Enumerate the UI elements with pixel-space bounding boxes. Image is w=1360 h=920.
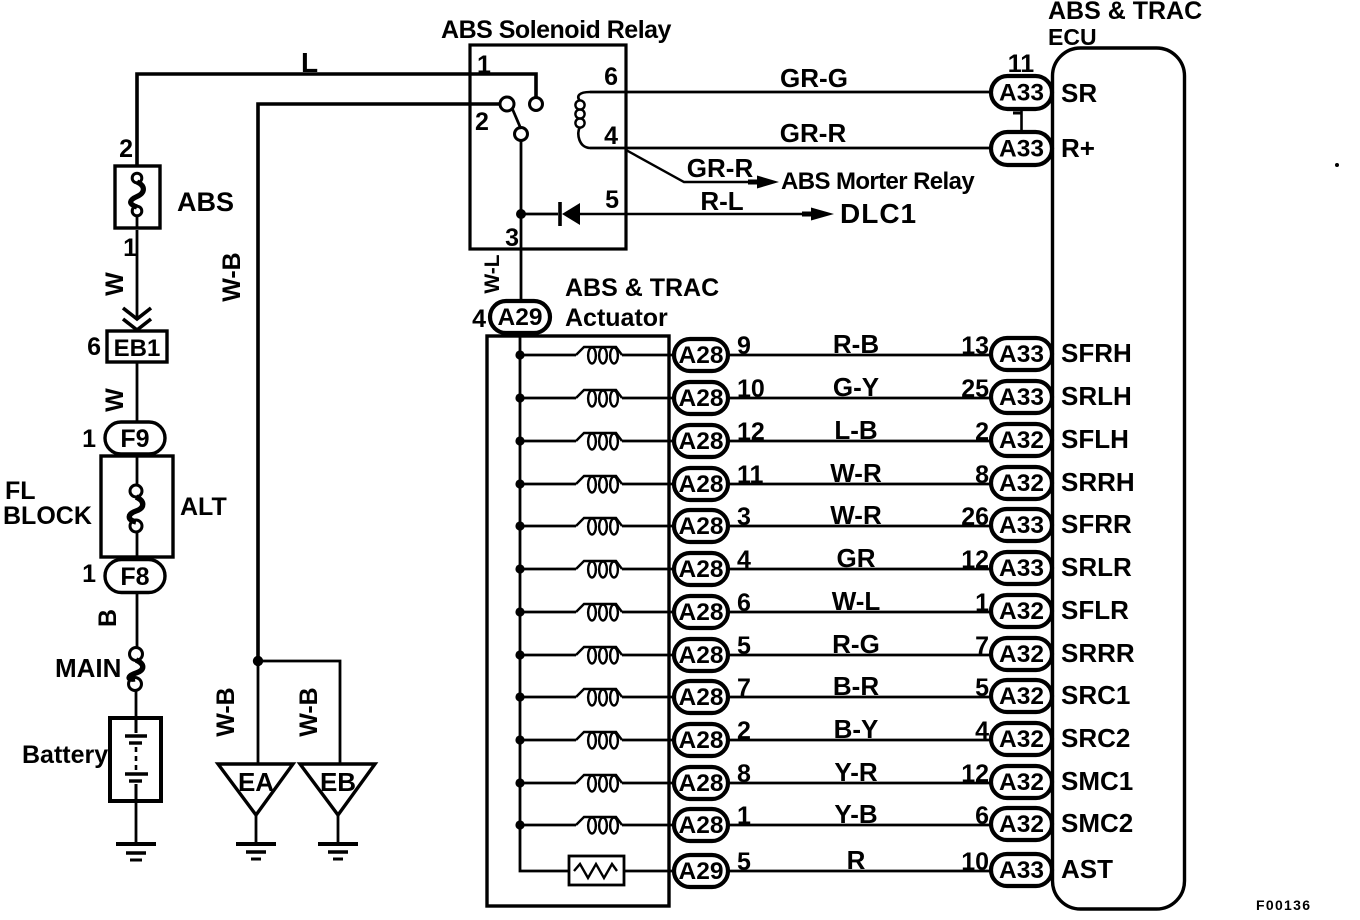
connector A32 row 11: [991, 766, 1052, 798]
svg-text:ABS: ABS: [177, 187, 234, 217]
svg-text:SFRR: SFRR: [1061, 509, 1132, 539]
wire: [520, 696, 576, 699]
svg-text:2: 2: [475, 108, 489, 136]
wire W-B (feed to relay pin 2 and down to grounds): [258, 104, 500, 661]
svg-text:12: 12: [961, 760, 989, 788]
svg-text:A29: A29: [679, 858, 724, 885]
svg-text:Actuator: Actuator: [565, 304, 668, 332]
connector A33 (SR): [991, 76, 1052, 109]
svg-text:SRC2: SRC2: [1061, 723, 1130, 753]
stray mark: [1335, 163, 1339, 167]
svg-text:13: 13: [961, 332, 989, 360]
svg-text:A28: A28: [679, 556, 724, 583]
svg-text:A28: A28: [679, 684, 724, 711]
svg-text:A32: A32: [999, 769, 1044, 796]
ground (battery): [116, 844, 156, 860]
junction node (pin 3 / pin 5): [516, 209, 526, 219]
connector A28 row 6: [674, 553, 728, 585]
connector A28 row 1: [674, 339, 728, 371]
svg-text:Y-B: Y-B: [834, 799, 877, 829]
svg-text:A32: A32: [999, 427, 1044, 454]
wire B-R row 9: [728, 696, 991, 699]
solenoid coil row 5: [576, 518, 622, 535]
connector A28 row 9: [674, 681, 728, 713]
svg-text:A33: A33: [999, 857, 1044, 884]
svg-text:A28: A28: [679, 770, 724, 797]
junction node row 1: [515, 350, 524, 359]
connector A28 row 11: [674, 767, 728, 799]
splice chevrons: [123, 308, 151, 330]
svg-text:G-Y: G-Y: [833, 372, 879, 402]
connector A28 row 8: [674, 639, 728, 671]
solenoid coil row 3: [576, 433, 622, 450]
svg-text:W-L: W-L: [481, 254, 504, 293]
svg-text:A33: A33: [999, 136, 1044, 163]
connector A33 row 1: [991, 338, 1052, 370]
connector A28 row 12: [674, 809, 728, 841]
svg-text:A28: A28: [679, 599, 724, 626]
connector A29 (actuator top): [490, 301, 550, 333]
solenoid coil row 6: [576, 561, 622, 578]
junction node row 7: [515, 607, 524, 616]
svg-text:W-R: W-R: [830, 458, 882, 488]
svg-text:A28: A28: [679, 342, 724, 369]
svg-text:6: 6: [604, 63, 618, 91]
svg-text:A28: A28: [679, 513, 724, 540]
svg-text:L-B: L-B: [834, 415, 877, 445]
connector A32 row 12: [991, 808, 1052, 840]
svg-text:EB1: EB1: [114, 335, 161, 362]
junction node row 11: [515, 778, 524, 787]
wire GR-G (pin 6 to ECU SR): [590, 91, 991, 94]
svg-text:3: 3: [505, 224, 519, 252]
wire: [135, 801, 138, 843]
connector A28 row 2: [674, 382, 728, 414]
wire: [622, 654, 674, 657]
svg-text:4: 4: [604, 122, 618, 150]
svg-text:A28: A28: [679, 727, 724, 754]
connector A32 row 8: [991, 638, 1052, 670]
solenoid coil row 4: [576, 476, 622, 493]
junction node row 12: [515, 820, 524, 829]
svg-text:2: 2: [975, 418, 989, 446]
svg-text:GR-G: GR-G: [780, 63, 848, 93]
wire: [520, 483, 576, 486]
svg-text:SMC2: SMC2: [1061, 808, 1133, 838]
svg-text:F9: F9: [120, 425, 149, 453]
solenoid coil row 12: [576, 817, 622, 834]
relay box ABS Solenoid Relay: [470, 45, 626, 249]
wire: [622, 568, 674, 571]
svg-text:ABS & TRAC: ABS & TRAC: [1048, 0, 1202, 25]
svg-text:A32: A32: [999, 726, 1044, 753]
svg-text:SRLH: SRLH: [1061, 381, 1132, 411]
wire G-Y row 2: [728, 397, 991, 400]
connector A32 row 9: [991, 680, 1052, 712]
svg-text:A33: A33: [999, 80, 1044, 107]
svg-text:25: 25: [961, 375, 989, 403]
svg-text:4: 4: [975, 717, 989, 745]
svg-text:6: 6: [87, 333, 101, 361]
resistor (actuator): [569, 856, 624, 885]
junction node row 8: [515, 650, 524, 659]
wire: [520, 782, 576, 785]
solenoid coil row 11: [576, 775, 622, 792]
wire: [520, 440, 576, 443]
wire: [136, 230, 139, 317]
connector A32 row 4: [991, 467, 1052, 499]
wire: [622, 354, 674, 357]
wire: [622, 782, 674, 785]
fuse ABS: [115, 166, 234, 228]
wire: [622, 696, 674, 699]
connector A33 row 5: [991, 509, 1052, 541]
svg-text:2: 2: [119, 135, 133, 163]
svg-text:W-B: W-B: [212, 687, 240, 736]
svg-text:A28: A28: [679, 471, 724, 498]
svg-text:SRLR: SRLR: [1061, 552, 1132, 582]
svg-text:W: W: [101, 388, 129, 412]
connector A32 row 10: [991, 723, 1052, 755]
wire to EA: [257, 661, 260, 764]
battery: [22, 718, 161, 801]
wire: [622, 739, 674, 742]
svg-text:5: 5: [975, 674, 989, 702]
junction node row 5: [515, 521, 524, 530]
wire R row 13: [728, 870, 991, 873]
svg-text:Battery: Battery: [22, 741, 108, 769]
junction connector EB1: [107, 331, 167, 362]
svg-text:AST: AST: [1061, 854, 1113, 884]
wire W-L row 7: [728, 611, 991, 614]
connector A33 row 13: [991, 854, 1052, 886]
connector A29 (resistor row): [674, 855, 728, 887]
wire Y-B row 12: [728, 824, 991, 827]
wire L (top feed to relay pin 1): [137, 74, 536, 166]
svg-text:R-B: R-B: [833, 329, 879, 359]
wire branch to EB: [258, 661, 340, 764]
svg-text:8: 8: [975, 461, 989, 489]
connector A32 row 7: [991, 595, 1052, 627]
svg-text:A32: A32: [999, 683, 1044, 710]
wire: [622, 440, 674, 443]
svg-text:A32: A32: [999, 598, 1044, 625]
svg-text:A32: A32: [999, 811, 1044, 838]
svg-text:26: 26: [961, 503, 989, 531]
svg-text:11: 11: [1008, 50, 1035, 78]
svg-text:A33: A33: [999, 384, 1044, 411]
diode: [521, 202, 580, 226]
connector link wire: [1013, 109, 1022, 132]
svg-text:1: 1: [975, 589, 989, 617]
connector F9: [105, 422, 165, 454]
wire B-Y row 10: [728, 739, 991, 742]
svg-text:GR-R: GR-R: [780, 118, 847, 148]
svg-text:SMC1: SMC1: [1061, 766, 1133, 796]
svg-text:SFLR: SFLR: [1061, 595, 1129, 625]
connector A33 row 6: [991, 552, 1052, 584]
connector A28 row 5: [674, 510, 728, 542]
svg-text:FL: FL: [5, 477, 36, 505]
wire: [520, 611, 576, 614]
svg-text:W-L: W-L: [832, 586, 881, 616]
wire R-B row 1: [728, 354, 991, 357]
svg-text:ECU: ECU: [1048, 24, 1097, 50]
svg-text:Y-R: Y-R: [834, 757, 878, 787]
svg-text:F8: F8: [120, 563, 149, 591]
svg-text:SRRR: SRRR: [1061, 638, 1135, 668]
svg-text:R-G: R-G: [832, 629, 880, 659]
wire stub to ABS Morter Relay: [626, 150, 779, 189]
svg-text:SRC1: SRC1: [1061, 680, 1130, 710]
svg-text:B-Y: B-Y: [834, 714, 879, 744]
svg-text:1: 1: [477, 51, 491, 79]
wire: [520, 654, 576, 657]
svg-text:12: 12: [961, 546, 989, 574]
wire GR row 6: [728, 568, 991, 571]
wire W-R row 5: [728, 525, 991, 528]
svg-text:ABS Morter Relay: ABS Morter Relay: [781, 168, 975, 195]
bus wire inside actuator: [520, 333, 569, 871]
fusible link MAIN: [55, 648, 143, 691]
ECU box ABS & TRAC ECU: [1053, 48, 1185, 909]
connector A28 row 4: [674, 468, 728, 500]
ground point EA: [218, 764, 293, 859]
svg-text:A32: A32: [999, 641, 1044, 668]
junction node: [253, 656, 263, 666]
solenoid coil row 9: [576, 689, 622, 706]
svg-text:10: 10: [961, 848, 989, 876]
svg-text:1: 1: [82, 425, 96, 453]
junction node row 10: [515, 735, 524, 744]
svg-text:1: 1: [123, 234, 137, 262]
relay coil: [575, 92, 590, 148]
wire GR-R (pin 4 to ECU R+): [590, 147, 991, 150]
svg-text:7: 7: [975, 632, 989, 660]
connector A28 row 7: [674, 596, 728, 628]
svg-text:EA: EA: [238, 767, 274, 797]
wire Y-R row 11: [728, 782, 991, 785]
svg-text:A32: A32: [999, 470, 1044, 497]
solenoid coil row 10: [576, 732, 622, 749]
wire: [622, 483, 674, 486]
wire R-G row 8: [728, 654, 991, 657]
wire: [622, 824, 674, 827]
svg-text:SR: SR: [1061, 78, 1097, 108]
svg-text:A33: A33: [999, 341, 1044, 368]
wire: [520, 354, 576, 357]
wire: [520, 824, 576, 827]
junction node row 6: [515, 564, 524, 573]
svg-text:W-R: W-R: [830, 500, 882, 530]
wire: [624, 870, 674, 873]
connector A32 row 3: [991, 424, 1052, 456]
svg-text:A28: A28: [679, 385, 724, 412]
ECU title: [1048, 0, 1202, 50]
svg-text:ABS & TRAC: ABS & TRAC: [565, 274, 719, 302]
svg-text:W-B: W-B: [218, 252, 246, 301]
junction node row 2: [515, 393, 524, 402]
ground point EB: [300, 764, 375, 859]
wire: [136, 362, 139, 422]
solenoid coil row 8: [576, 647, 622, 664]
solenoid coil row 7: [576, 604, 622, 621]
svg-text:B-R: B-R: [833, 671, 879, 701]
wire: [622, 611, 674, 614]
svg-text:A33: A33: [999, 555, 1044, 582]
svg-text:SRRH: SRRH: [1061, 467, 1135, 497]
relay switch contacts: [500, 97, 543, 141]
svg-text:6: 6: [975, 802, 989, 830]
svg-text:GR: GR: [837, 543, 876, 573]
svg-text:A28: A28: [679, 812, 724, 839]
wire pin 3 to actuator connector: [520, 141, 523, 302]
svg-text:A33: A33: [999, 512, 1044, 539]
junction node row 4: [515, 479, 524, 488]
connector F8: [105, 560, 165, 593]
svg-text:SFRH: SFRH: [1061, 338, 1132, 368]
junction node row 3: [515, 436, 524, 445]
connector A28 row 10: [674, 724, 728, 756]
connector A28 row 3: [674, 425, 728, 457]
svg-text:A29: A29: [498, 304, 543, 331]
svg-text:BLOCK: BLOCK: [3, 502, 92, 530]
svg-text:L: L: [301, 47, 318, 78]
solenoid coil row 1: [576, 347, 622, 364]
svg-text:EB: EB: [320, 767, 356, 797]
fuse ALT: [129, 456, 227, 557]
svg-text:DLC1: DLC1: [840, 198, 917, 229]
wire: [520, 397, 576, 400]
wire: [520, 525, 576, 528]
svg-text:W-B: W-B: [295, 687, 323, 736]
svg-text:4: 4: [472, 305, 486, 333]
svg-text:A28: A28: [679, 428, 724, 455]
wire L-B row 3: [728, 440, 991, 443]
svg-text:W: W: [101, 272, 129, 296]
svg-text:5: 5: [605, 186, 619, 214]
wire: [136, 593, 139, 648]
wire: [622, 525, 674, 528]
svg-text:R+: R+: [1061, 133, 1095, 163]
wire: [135, 691, 138, 718]
svg-text:SFLH: SFLH: [1061, 424, 1129, 454]
wire: [520, 568, 576, 571]
wire R-L to DLC1: [580, 208, 834, 221]
wire: [622, 397, 674, 400]
svg-text:F00136: F00136: [1256, 897, 1311, 913]
svg-text:A28: A28: [679, 642, 724, 669]
solenoid coil row 2: [576, 390, 622, 407]
svg-text:R: R: [847, 845, 866, 875]
junction node row 9: [515, 692, 524, 701]
svg-text:ALT: ALT: [180, 493, 227, 521]
connector A33 (R+): [991, 132, 1052, 165]
svg-text:GR-R: GR-R: [687, 153, 754, 183]
connector A33 row 2: [991, 381, 1052, 413]
label ABS & TRAC Actuator: [565, 274, 719, 332]
svg-text:1: 1: [82, 560, 96, 588]
svg-text:R-L: R-L: [700, 186, 743, 216]
svg-text:B: B: [94, 609, 122, 627]
svg-text:ABS Solenoid Relay: ABS Solenoid Relay: [441, 16, 672, 44]
FL BLOCK box: [3, 456, 173, 557]
svg-text:MAIN: MAIN: [55, 653, 121, 683]
actuator box: [487, 336, 669, 906]
wire W-R row 4: [728, 483, 991, 486]
wire: [520, 739, 576, 742]
